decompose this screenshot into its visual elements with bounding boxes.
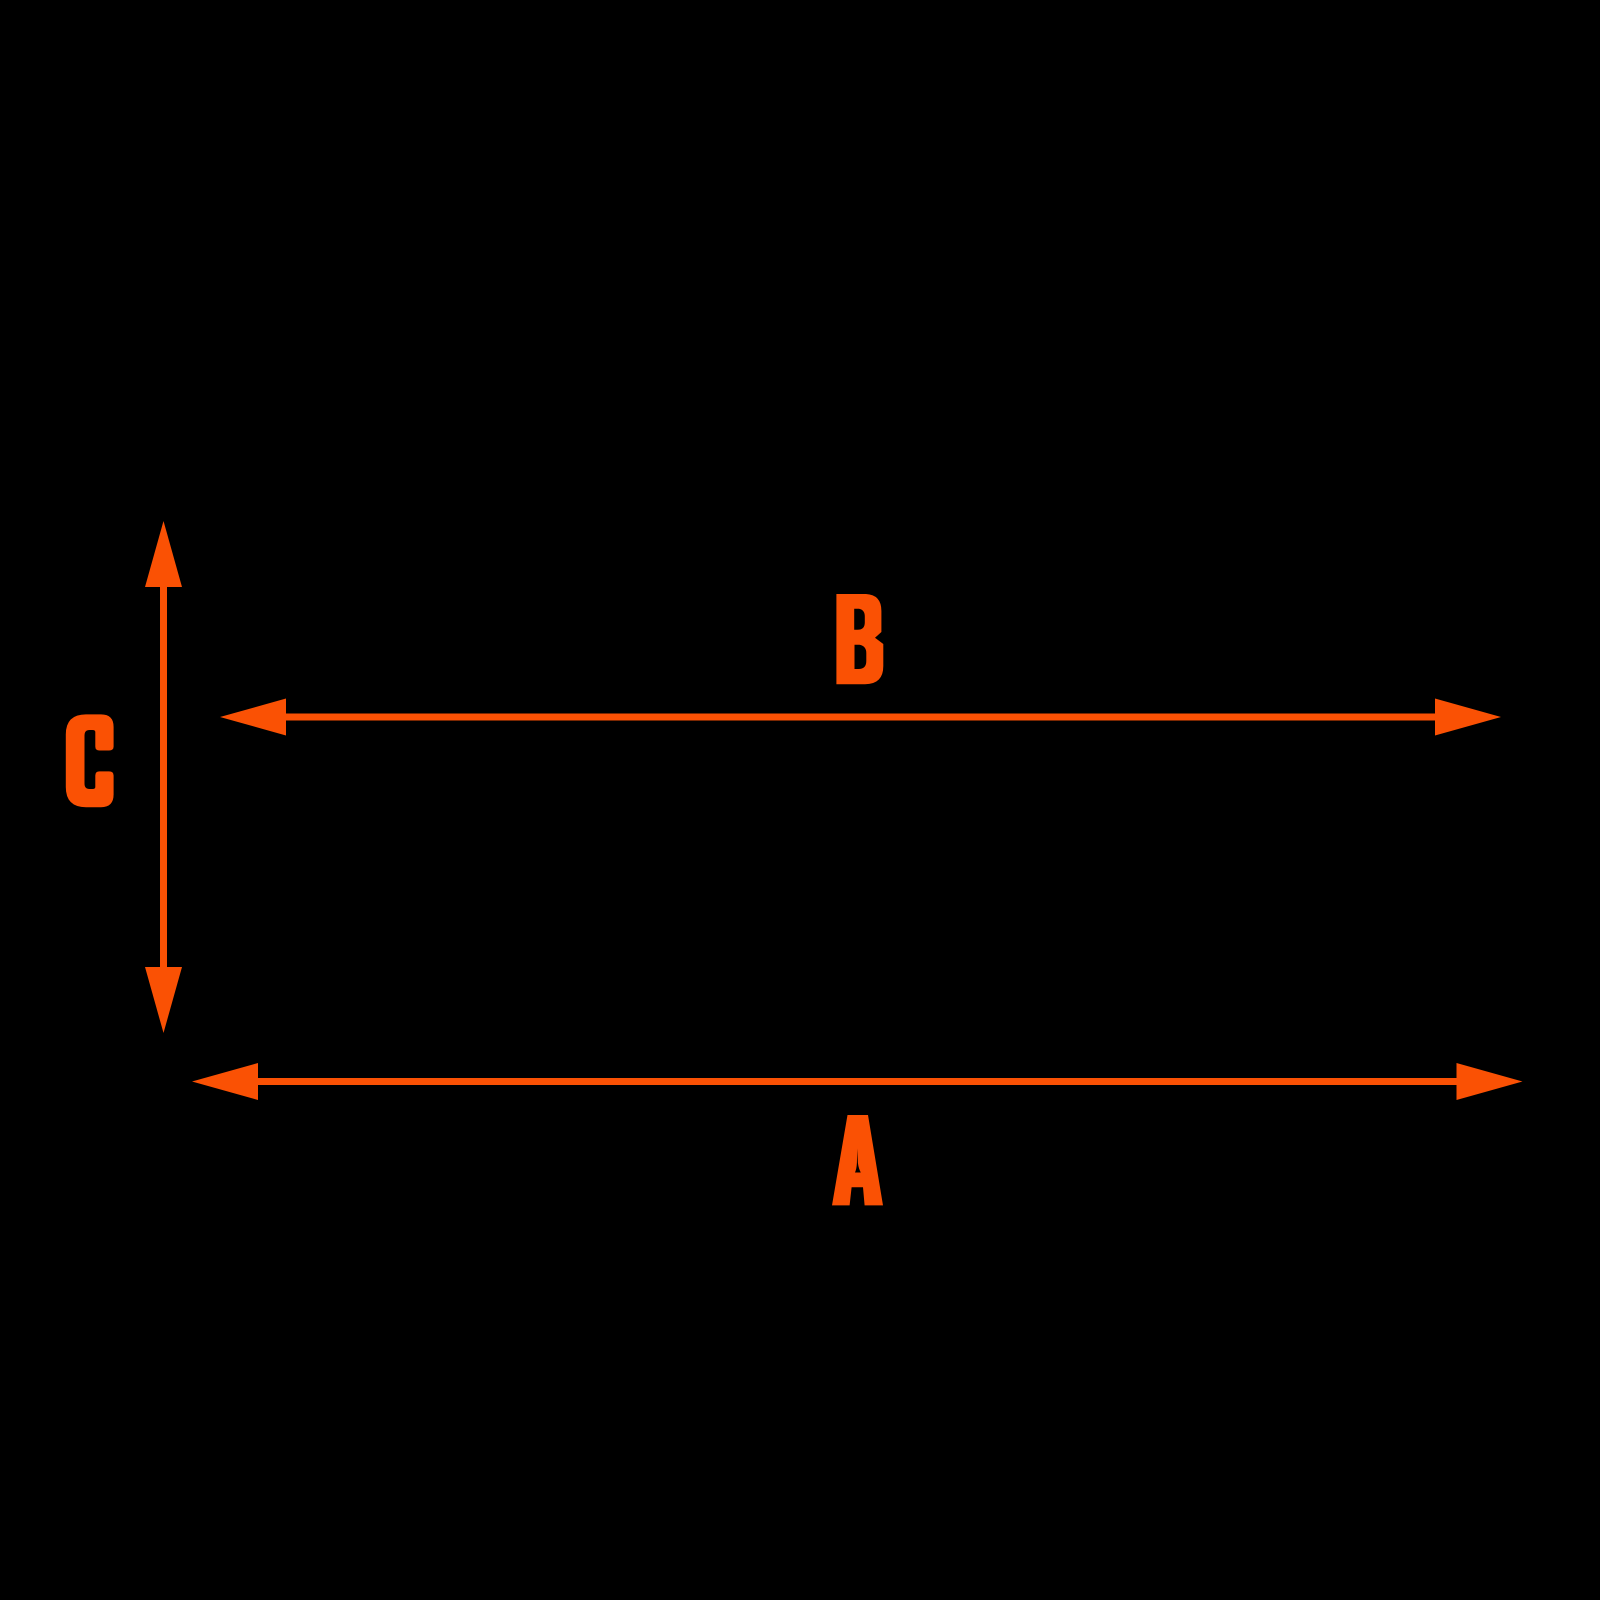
C top arrowhead [145, 521, 182, 587]
label B [836, 594, 883, 684]
wire: B shaft [283, 714, 1437, 721]
wire: C shaft [160, 585, 167, 969]
dimension arrow C (vertical, double-headed) [145, 521, 182, 1033]
dimension arrow B (horizontal, double-headed) [220, 699, 1501, 736]
B left arrowhead [220, 699, 286, 736]
label A [832, 1115, 883, 1205]
label C [66, 714, 114, 807]
A right arrowhead [1457, 1063, 1523, 1100]
wire: A shaft [255, 1078, 1459, 1085]
A left arrowhead [192, 1063, 258, 1100]
C bottom arrowhead [145, 967, 182, 1033]
B right arrowhead [1435, 699, 1501, 736]
dimension arrow A (horizontal, double-headed) [192, 1063, 1523, 1100]
